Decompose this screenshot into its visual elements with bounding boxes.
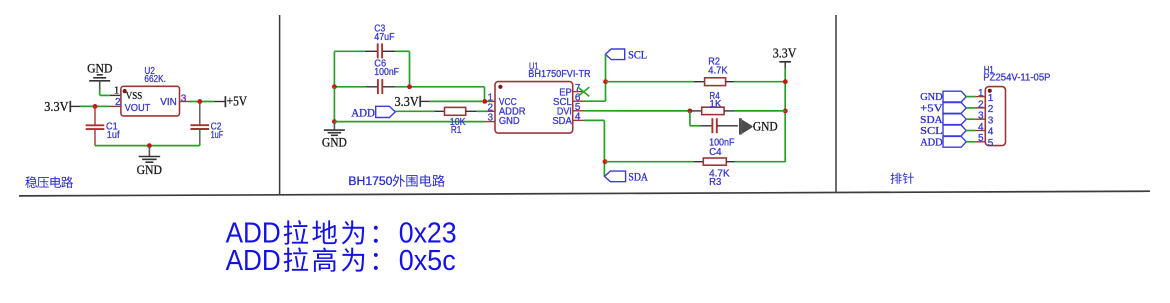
svg-text:GND: GND: [499, 116, 520, 127]
3.3V bar symbol (pullups): [779, 61, 791, 63]
wire C4 branch: [690, 111, 701, 126]
resistor R4 left lead: [690, 110, 702, 112]
ground symbol section2: [324, 122, 345, 136]
ground symbol bottom (section1): [139, 146, 161, 163]
wire 3.3V rail vertical: [784, 69, 786, 162]
wire C6 row to VCC: [334, 87, 484, 102]
junction rail/R2: [783, 79, 788, 84]
svg-text:SDA: SDA: [628, 172, 648, 184]
junction bottom GND: [147, 143, 152, 148]
resistor R3 left lead: [693, 161, 703, 163]
wire U2 pin3 to +5V: [190, 101, 215, 103]
3.3V stem: [784, 62, 786, 69]
svg-text:5: 5: [988, 138, 994, 149]
wire GND rail left: [333, 87, 335, 122]
U2 pin 2 stub: [110, 105, 121, 107]
U2 pin-1 marker dot: [123, 89, 127, 93]
U1 pin 2 stub: [488, 110, 496, 112]
wire 3.3V lead (U1): [420, 100, 430, 102]
svg-text:4.7K: 4.7K: [708, 65, 728, 76]
wire port ADD to H1 pin 5: [966, 141, 975, 143]
svg-text:+5V: +5V: [920, 103, 943, 115]
resistor R3 right lead: [726, 161, 734, 163]
svg-text:SCL: SCL: [920, 125, 943, 137]
svg-text:ADD: ADD: [351, 107, 375, 119]
wire R1 to U1 pin2: [477, 110, 488, 112]
capacitor C3: [377, 43, 379, 58]
wire SCL net: [584, 54, 606, 101]
svg-text:47uF: 47uF: [374, 32, 394, 43]
resistor R2 right lead: [726, 81, 734, 83]
wire GND rail to U1 pin3: [334, 121, 485, 123]
wire port SCL to H1 pin 4: [966, 130, 975, 132]
capacitor C2 top lead: [199, 102, 201, 125]
wire GND to U2 pin 1: [100, 89, 110, 95]
wire R2 to 3.3V rail: [734, 81, 785, 83]
junction VCC/caps: [482, 99, 487, 104]
capacitor C3 leads: [365, 50, 396, 52]
junction SDA/R3: [603, 159, 608, 164]
svg-text:2: 2: [978, 99, 984, 110]
capacitor C1: [86, 124, 105, 126]
svg-text:ADD: ADD: [226, 245, 281, 277]
section label 排针: [891, 173, 914, 184]
U1 pin 3 stub: [485, 121, 495, 123]
svg-text:3: 3: [988, 115, 994, 126]
junction rail/R4: [783, 109, 788, 114]
U1 pin-1 marker dot: [498, 85, 502, 89]
svg-text:GND: GND: [137, 163, 162, 177]
junction R4/C4: [688, 109, 693, 114]
wire port GND to H1 pin 1: [966, 96, 975, 98]
port ADD (header): [943, 136, 966, 147]
svg-text:C4: C4: [709, 147, 722, 158]
port GND (header): [943, 91, 966, 102]
svg-text:SDA: SDA: [552, 116, 572, 127]
H1 pin 1 stub: [975, 96, 985, 98]
svg-text:1: 1: [988, 93, 994, 104]
port SDA (header): [943, 114, 966, 125]
U1 pin 7 stub: [573, 91, 583, 93]
svg-text:1uF: 1uF: [211, 130, 224, 141]
wire SDA to R3: [605, 161, 693, 163]
junction SCL/R2: [603, 79, 608, 84]
junction C6 left: [332, 84, 337, 89]
+5V bar symbol: [224, 96, 226, 107]
junction C3/C6 right: [407, 84, 412, 89]
wire 3.3V lead: [70, 105, 80, 107]
capacitor C4: [711, 118, 713, 133]
resistor R2 left lead: [694, 81, 705, 83]
junction GND rail: [332, 119, 337, 124]
svg-text:GND: GND: [920, 91, 943, 103]
svg-text:GND: GND: [753, 119, 778, 133]
capacitor C6: [377, 79, 379, 94]
wire SCL to R2: [606, 81, 694, 83]
section label 稳压电路: [25, 176, 73, 188]
H1 pin 2 stub: [975, 107, 985, 109]
op-amp U2 body: [121, 86, 180, 116]
ground symbol top-left: [89, 75, 110, 90]
ground arrow symbol: [739, 118, 753, 134]
frame bottom border: [19, 191, 1150, 196]
resistor R4 right lead: [724, 110, 734, 112]
svg-text:3.3V: 3.3V: [773, 46, 797, 61]
svg-text:VIN: VIN: [160, 97, 177, 108]
capacitor C4 right lead: [717, 125, 738, 127]
capacitor C1 top lead: [94, 106, 96, 125]
svg-text:2: 2: [115, 97, 121, 108]
svg-text:1uf: 1uf: [107, 130, 120, 141]
svg-text:662K.: 662K.: [144, 74, 166, 85]
svg-text:3: 3: [487, 113, 493, 124]
svg-text:R3: R3: [709, 177, 722, 188]
wire R4 to rail: [734, 110, 785, 112]
note line 1 ADD拉地为：0x23: [226, 218, 457, 250]
resistor R4 body: [702, 107, 724, 114]
junction C2/+5V: [197, 99, 202, 104]
svg-text:VSS: VSS: [126, 91, 143, 102]
capacitor C1 bottom lead: [94, 129, 96, 146]
wire port SDA to H1 pin 3: [966, 118, 975, 120]
svg-text:GND: GND: [87, 62, 112, 76]
IC U1 body: [495, 82, 573, 134]
svg-text:0x5c: 0x5c: [399, 245, 456, 277]
wire C2 corner: [199, 144, 201, 146]
U1 pin 6 stub: [573, 100, 584, 102]
svg-text:BH1750: BH1750: [348, 174, 392, 188]
resistor R2 body: [705, 78, 726, 86]
U1 pin 4 stub: [573, 119, 584, 121]
3.3V bar symbol: [69, 101, 71, 112]
resistor R3 body: [703, 158, 726, 165]
svg-text:ADD: ADD: [920, 136, 943, 148]
wire bottom rail C1-C2: [95, 145, 200, 147]
svg-text:1K: 1K: [709, 99, 722, 110]
frame vertical divider left: [279, 15, 281, 195]
port +5V (header): [943, 103, 966, 114]
H1 pin-1 marker dot: [988, 89, 992, 93]
port SCL (header): [943, 125, 966, 136]
H1 pin 3 stub: [975, 118, 985, 120]
svg-text:VOUT: VOUT: [125, 103, 151, 114]
svg-text:BH1750FVI-TR: BH1750FVI-TR: [528, 69, 590, 80]
wire port +5V to H1 pin 2: [966, 107, 975, 109]
U2 pin 1 stub: [110, 94, 121, 96]
section label BH1750外围电路: [348, 174, 444, 188]
svg-text:1: 1: [978, 88, 984, 99]
junction C1/3.3V: [93, 104, 98, 109]
svg-text:4: 4: [988, 127, 994, 138]
U2 pin 3 stub: [180, 101, 190, 103]
wire 3.3V to U1 pin1: [430, 100, 490, 102]
capacitor C2: [191, 124, 210, 126]
wire ADD to R1: [395, 110, 434, 112]
no-connect X on pin 7: [578, 87, 589, 96]
port SCL: [605, 49, 624, 60]
svg-text:3: 3: [181, 93, 187, 104]
port ADD: [376, 106, 396, 117]
3.3V bar symbol (U1): [419, 96, 421, 107]
wire 3.3V to U2 pin 2: [80, 105, 110, 107]
svg-text:1: 1: [114, 85, 119, 96]
U1 pin 1 stub: [490, 100, 495, 102]
svg-text:100nF: 100nF: [374, 67, 399, 78]
wire U1 pin5 to R4: [584, 110, 690, 112]
port SDA: [605, 171, 626, 182]
U1 pin 5 stub: [573, 110, 584, 112]
svg-text:SCL: SCL: [628, 50, 647, 62]
note line 2 ADD拉高为：0x5c: [226, 245, 456, 277]
svg-text:SDA: SDA: [920, 114, 943, 126]
capacitor C6 leads: [365, 86, 394, 88]
capacitor C4 left lead: [701, 125, 713, 127]
frame vertical divider right: [835, 15, 837, 193]
svg-text:PZ254V-11-05P: PZ254V-11-05P: [983, 73, 1051, 84]
svg-text:+5V: +5V: [227, 94, 248, 109]
H1 pin 5 stub: [975, 141, 985, 143]
svg-text:3.3V: 3.3V: [395, 94, 420, 109]
wire +5V lead: [215, 101, 226, 103]
svg-text:3.3V: 3.3V: [44, 99, 69, 114]
wire U1 pin4 to SDA: [584, 120, 604, 176]
svg-text:4: 4: [978, 122, 984, 133]
svg-text:3: 3: [978, 111, 984, 122]
resistor R1 left lead: [435, 110, 445, 112]
svg-text:2: 2: [988, 104, 994, 115]
wire R3 to rail: [735, 161, 786, 163]
svg-text:R1: R1: [451, 125, 462, 136]
svg-text:5: 5: [978, 133, 984, 144]
wire C3 top loop: [334, 51, 409, 87]
H1 pin 4 stub: [975, 130, 985, 132]
svg-text:GND: GND: [322, 135, 347, 149]
resistor R1 body: [445, 107, 466, 115]
resistor R1 right lead: [466, 110, 477, 112]
wire rail corner: [784, 158, 786, 162]
connector H1 body: [985, 87, 1005, 146]
capacitor C2 bottom lead: [199, 129, 201, 144]
